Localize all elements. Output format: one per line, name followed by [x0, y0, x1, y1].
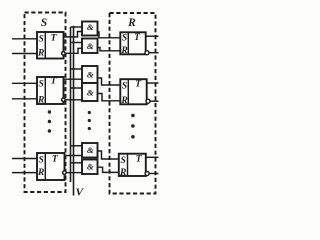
junction dot bus A3 row	[72, 145, 74, 147]
svg-text:&: &	[87, 88, 94, 98]
svg-text:S: S	[39, 80, 44, 90]
svg-text:&: &	[87, 162, 94, 172]
svg-text:S: S	[121, 156, 126, 166]
wire rung A3 top input	[71, 145, 83, 147]
wire T2 inverse output to gate B2	[65, 99, 82, 101]
flip-flop T4 divider	[127, 32, 129, 54]
junction dot bus A2 row	[72, 68, 74, 70]
flip-flop T2 divider	[44, 77, 46, 104]
flip-flop T6 divider	[127, 154, 129, 176]
wire T1 direct output to gate A1	[64, 32, 83, 37]
flip-flop T4 right box	[120, 32, 145, 54]
flip-flop T3 divider	[44, 153, 46, 180]
wire gate A2 output to S input of flip-flop T5	[98, 78, 121, 85]
strobe line V	[70, 27, 72, 182]
svg-text:R: R	[127, 17, 136, 29]
register S dashed box	[25, 13, 66, 193]
wire input R of T1	[12, 53, 37, 55]
wire T2 direct output to gate A2	[64, 78, 83, 80]
inverter bubble T1	[62, 52, 66, 56]
wire rung A1 top input	[71, 26, 83, 28]
AND gate B1	[82, 39, 98, 54]
wire gate A3 output to S input of flip-flop T6	[98, 151, 119, 159]
wire rung B1 top input	[71, 42, 83, 44]
flip-flop T2 left box	[37, 77, 64, 104]
ellipsis dots right column	[131, 114, 135, 118]
wire T6 direct output	[146, 156, 159, 158]
junction dot bus B3 row	[72, 162, 74, 164]
wire input S of T3	[12, 158, 37, 160]
AND gate A3	[82, 143, 98, 158]
wire T4 inverse output	[149, 52, 159, 54]
svg-text:S: S	[122, 82, 127, 92]
wire T1 inverse output to gate B1	[65, 48, 82, 53]
svg-text:R: R	[37, 49, 44, 59]
ellipsis dots left column	[48, 110, 51, 113]
wire rung A2 top input	[71, 68, 83, 70]
svg-text:R: R	[120, 46, 127, 56]
wire input S of T1	[12, 38, 37, 40]
wire T4 direct output	[146, 35, 159, 37]
ellipsis dots middle column	[88, 111, 91, 114]
svg-text:&: &	[87, 41, 94, 51]
wire T5 inverse output	[150, 100, 159, 102]
junction dot bus B1 row	[72, 26, 74, 28]
inverter bubble T6	[145, 172, 149, 176]
AND gate A1	[82, 22, 98, 36]
AND gate B3	[82, 160, 98, 175]
wire T6 inverse output	[149, 173, 158, 175]
wire rung B2 top input	[71, 87, 83, 89]
register R dashed box	[110, 13, 156, 194]
paper background	[0, 0, 168, 207]
flip-flop T6 right box	[119, 154, 146, 176]
inverter bubble T3	[63, 171, 67, 175]
svg-text:&: &	[87, 22, 94, 32]
svg-text:&: &	[87, 70, 94, 80]
inverter bubble T5	[146, 99, 150, 103]
AND gate A2	[82, 66, 98, 83]
inverter bubble T2	[62, 98, 66, 102]
wire T3 inverse output to gate B3	[66, 172, 82, 174]
flip-flop T5 divider	[127, 79, 129, 104]
svg-text:&: &	[87, 145, 94, 155]
bus line 2	[73, 27, 75, 196]
junction dot bus B1b row	[72, 41, 74, 43]
wire gate B3 output to R input of flip-flop T6	[98, 167, 119, 172]
wire T3 direct output to gate A3	[65, 155, 83, 157]
wire rung B3 top input	[71, 162, 83, 164]
svg-text:S: S	[41, 17, 47, 29]
flip-flop T1 divider	[44, 32, 46, 59]
flip-flop T5 right box	[120, 79, 146, 104]
wire gate B2 output to R input of flip-flop T5	[98, 94, 121, 101]
svg-text:R: R	[37, 168, 44, 178]
inverter bubble T4	[145, 51, 149, 55]
wire gate A1 output to S input of flip-flop T4	[98, 32, 121, 38]
svg-text:R: R	[120, 96, 127, 106]
wire input S of T2	[12, 82, 37, 84]
flip-flop T3 left box	[37, 153, 65, 180]
wire gate B1 output to R input of flip-flop T4	[98, 48, 121, 51]
AND gate B2	[82, 83, 98, 101]
svg-text:S: S	[39, 35, 44, 45]
svg-text:S: S	[39, 156, 44, 166]
wire T5 direct output	[147, 82, 159, 84]
wire input R of T2	[12, 98, 37, 100]
svg-text:R: R	[119, 168, 126, 178]
svg-text:R: R	[37, 96, 44, 106]
svg-text:S: S	[122, 34, 127, 44]
wire input R of T3	[12, 172, 37, 174]
junction dot bus B2 row	[72, 87, 74, 89]
flip-flop T1 left box	[37, 32, 64, 59]
